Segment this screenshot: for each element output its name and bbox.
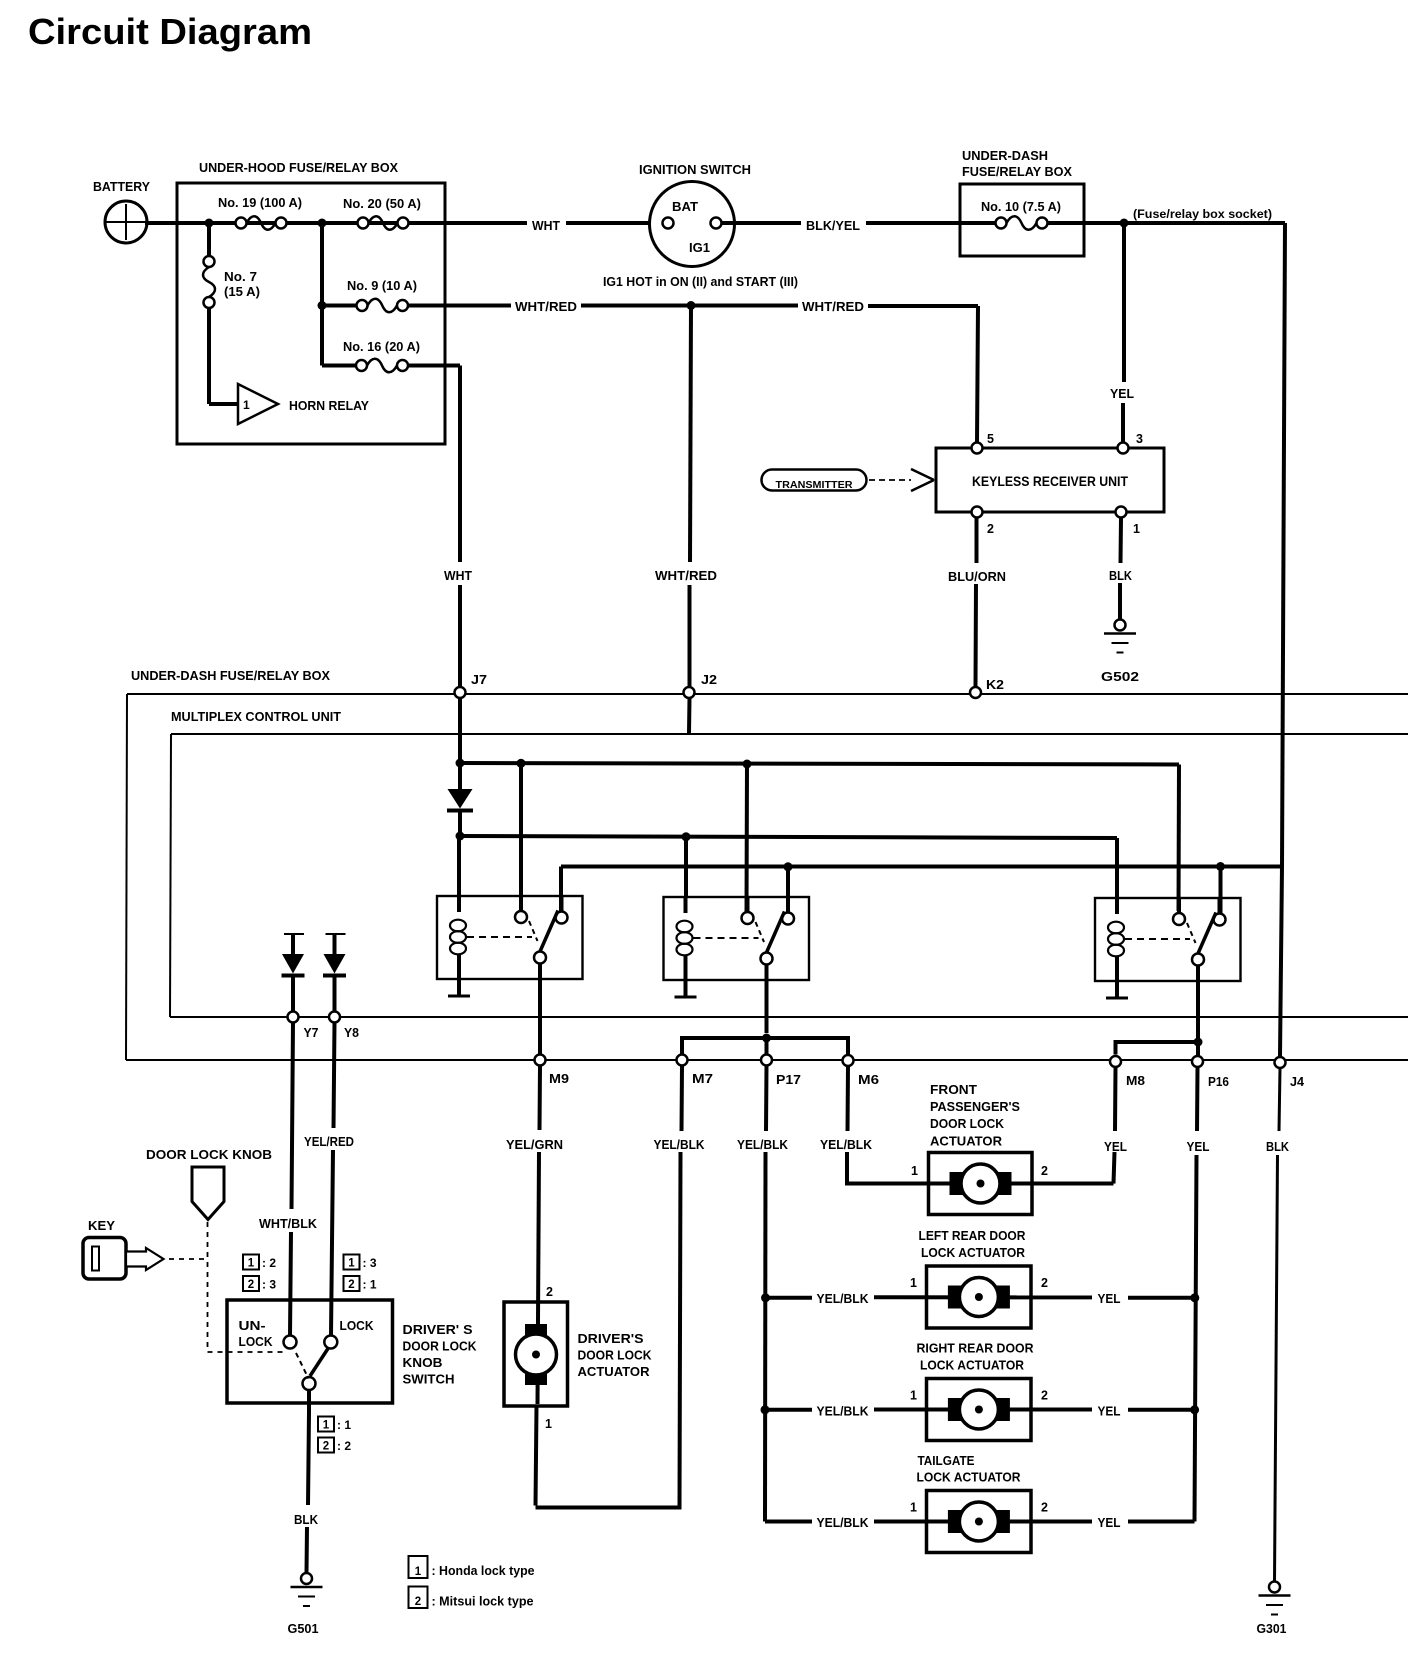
svg-text:1: 1 <box>415 1566 422 1578</box>
svg-text:LOCK ACTUATOR: LOCK ACTUATOR <box>920 1358 1025 1373</box>
svg-text:IG1: IG1 <box>689 240 710 255</box>
svg-text:1: 1 <box>243 398 250 412</box>
svg-text:BLU/ORN: BLU/ORN <box>948 569 1006 584</box>
svg-text:No. 19 (100 A): No. 19 (100 A) <box>218 196 302 210</box>
svg-text:LOCK ACTUATOR: LOCK ACTUATOR <box>921 1245 1026 1260</box>
svg-text:WHT/BLK: WHT/BLK <box>259 1216 318 1231</box>
svg-text:PASSENGER'S: PASSENGER'S <box>930 1099 1020 1114</box>
svg-text:(Fuse/relay box socket): (Fuse/relay box socket) <box>1133 207 1272 221</box>
svg-text:1: 1 <box>348 1258 355 1270</box>
svg-text:YEL/BLK: YEL/BLK <box>737 1137 789 1152</box>
svg-text:YEL/GRN: YEL/GRN <box>506 1137 563 1152</box>
svg-text:: 3: : 3 <box>363 1256 377 1270</box>
svg-text:P17: P17 <box>776 1072 801 1087</box>
svg-text:Y7: Y7 <box>304 1026 319 1040</box>
svg-text:YEL: YEL <box>1098 1515 1121 1530</box>
svg-text:1: 1 <box>545 1417 552 1431</box>
svg-text:UNDER-HOOD FUSE/RELAY BOX: UNDER-HOOD FUSE/RELAY BOX <box>199 160 398 175</box>
svg-text:G501: G501 <box>288 1621 319 1636</box>
svg-text:M8: M8 <box>1126 1073 1145 1088</box>
svg-text:No. 10 (7.5 A): No. 10 (7.5 A) <box>981 200 1061 214</box>
svg-text:2: 2 <box>415 1596 421 1608</box>
svg-text:BATTERY: BATTERY <box>93 179 150 194</box>
svg-text:: 2: : 2 <box>262 1256 276 1270</box>
svg-text:SWITCH: SWITCH <box>403 1372 455 1387</box>
svg-text:WHT/RED: WHT/RED <box>515 299 577 314</box>
svg-text:IG1 HOT in ON (II) and START (: IG1 HOT in ON (II) and START (III) <box>603 275 798 289</box>
svg-text:2: 2 <box>248 1279 254 1291</box>
svg-text:YEL/BLK: YEL/BLK <box>817 1404 870 1419</box>
svg-text:: 3: : 3 <box>262 1278 276 1292</box>
svg-text:YEL: YEL <box>1098 1404 1121 1419</box>
svg-text:TAILGATE: TAILGATE <box>918 1453 975 1468</box>
svg-text:UN-: UN- <box>239 1318 266 1333</box>
svg-text:MULTIPLEX CONTROL UNIT: MULTIPLEX CONTROL UNIT <box>171 710 341 724</box>
svg-text:DOOR LOCK KNOB: DOOR LOCK KNOB <box>146 1147 272 1162</box>
svg-text:DRIVER' S: DRIVER' S <box>403 1322 473 1337</box>
svg-text:2: 2 <box>348 1279 354 1291</box>
svg-text:YEL/BLK: YEL/BLK <box>817 1515 870 1530</box>
svg-text:K2: K2 <box>986 678 1004 692</box>
svg-text:1: 1 <box>323 1420 330 1432</box>
svg-text:DOOR LOCK: DOOR LOCK <box>930 1116 1005 1131</box>
svg-text:Y8: Y8 <box>344 1026 359 1040</box>
svg-text:(15 A): (15 A) <box>224 285 260 299</box>
svg-text:: Honda lock type: : Honda lock type <box>432 1563 535 1578</box>
svg-text:DRIVER'S: DRIVER'S <box>578 1331 644 1346</box>
svg-text:LOCK: LOCK <box>340 1318 375 1333</box>
svg-text:HORN RELAY: HORN RELAY <box>289 398 369 413</box>
svg-text:YEL: YEL <box>1110 386 1134 401</box>
svg-text:DOOR LOCK: DOOR LOCK <box>578 1348 653 1363</box>
svg-text:: 1: : 1 <box>337 1418 351 1432</box>
svg-text:BLK: BLK <box>294 1512 319 1527</box>
svg-text:M6: M6 <box>858 1072 879 1087</box>
svg-text:1: 1 <box>910 1501 917 1515</box>
svg-text:LOCK ACTUATOR: LOCK ACTUATOR <box>917 1470 1022 1485</box>
svg-text:LEFT REAR DOOR: LEFT REAR DOOR <box>919 1228 1027 1243</box>
svg-text:YEL: YEL <box>1098 1291 1121 1306</box>
svg-text:LOCK: LOCK <box>239 1334 274 1349</box>
svg-text:J4: J4 <box>1290 1074 1305 1089</box>
svg-text:1: 1 <box>910 1389 917 1403</box>
svg-text:IGNITION SWITCH: IGNITION SWITCH <box>639 162 751 177</box>
svg-text:No. 9 (10 A): No. 9 (10 A) <box>347 279 417 293</box>
svg-text:FRONT: FRONT <box>930 1082 977 1097</box>
svg-text:: 2: : 2 <box>337 1439 351 1453</box>
svg-text:3: 3 <box>1136 432 1143 446</box>
svg-text:M7: M7 <box>692 1071 713 1086</box>
svg-text:BLK: BLK <box>1109 568 1133 583</box>
svg-text:: Mitsui lock type: : Mitsui lock type <box>432 1594 534 1609</box>
svg-text:YEL/RED: YEL/RED <box>304 1134 354 1149</box>
svg-text:1: 1 <box>248 1258 255 1270</box>
svg-text:ACTUATOR: ACTUATOR <box>578 1364 651 1379</box>
svg-text:1: 1 <box>1133 522 1140 536</box>
svg-text:2: 2 <box>1041 1501 1048 1515</box>
svg-text:P16: P16 <box>1208 1074 1229 1089</box>
svg-text:FUSE/RELAY BOX: FUSE/RELAY BOX <box>962 164 1072 179</box>
svg-text:2: 2 <box>1041 1276 1048 1290</box>
svg-text:YEL/BLK: YEL/BLK <box>820 1137 873 1152</box>
svg-text:KEY: KEY <box>88 1218 115 1233</box>
svg-text:M9: M9 <box>549 1071 569 1086</box>
svg-text:WHT: WHT <box>532 218 560 233</box>
svg-text:No. 7: No. 7 <box>224 270 257 284</box>
svg-text:J7: J7 <box>471 673 487 687</box>
svg-text:Circuit Diagram: Circuit Diagram <box>28 11 312 52</box>
svg-text:YEL: YEL <box>1187 1139 1210 1154</box>
svg-text:: 1: : 1 <box>363 1278 377 1292</box>
svg-text:KNOB: KNOB <box>403 1355 443 1370</box>
svg-text:WHT/RED: WHT/RED <box>802 299 864 314</box>
svg-text:G301: G301 <box>1257 1621 1287 1636</box>
svg-text:DOOR LOCK: DOOR LOCK <box>403 1339 478 1354</box>
svg-text:ACTUATOR: ACTUATOR <box>930 1134 1003 1149</box>
svg-text:YEL/BLK: YEL/BLK <box>817 1291 870 1306</box>
svg-text:J2: J2 <box>701 673 717 687</box>
svg-text:2: 2 <box>1041 1164 1048 1178</box>
svg-text:BLK: BLK <box>1266 1139 1290 1154</box>
svg-text:UNDER-DASH: UNDER-DASH <box>962 148 1048 163</box>
svg-text:TRANSMITTER: TRANSMITTER <box>776 479 853 491</box>
svg-text:No. 16 (20 A): No. 16 (20 A) <box>343 340 420 354</box>
svg-text:2: 2 <box>987 522 994 536</box>
svg-text:No. 20 (50 A): No. 20 (50 A) <box>343 197 421 211</box>
svg-text:2: 2 <box>1041 1389 1048 1403</box>
svg-text:G502: G502 <box>1101 669 1139 684</box>
svg-text:1: 1 <box>910 1276 917 1290</box>
svg-text:YEL: YEL <box>1104 1139 1127 1154</box>
svg-text:BLK/YEL: BLK/YEL <box>806 218 860 233</box>
svg-text:1: 1 <box>911 1164 918 1178</box>
svg-text:2: 2 <box>546 1285 553 1299</box>
svg-text:WHT: WHT <box>444 568 472 583</box>
svg-text:RIGHT REAR DOOR: RIGHT REAR DOOR <box>917 1341 1035 1356</box>
svg-text:WHT/RED: WHT/RED <box>655 568 717 583</box>
svg-text:UNDER-DASH FUSE/RELAY BOX: UNDER-DASH FUSE/RELAY BOX <box>131 669 331 683</box>
svg-text:KEYLESS RECEIVER UNIT: KEYLESS RECEIVER UNIT <box>972 474 1129 489</box>
svg-text:5: 5 <box>987 432 994 446</box>
svg-text:BAT: BAT <box>672 199 698 214</box>
svg-text:YEL/BLK: YEL/BLK <box>654 1137 706 1152</box>
svg-text:2: 2 <box>323 1441 329 1453</box>
